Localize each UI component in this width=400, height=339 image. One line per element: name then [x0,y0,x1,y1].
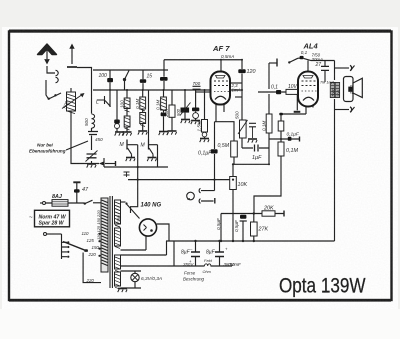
svg-text:0,1M: 0,1M [262,121,267,131]
svg-text:700: 700 [193,81,201,86]
svg-text:10V: 10V [288,84,298,90]
svg-text:7M 1mA: 7M 1mA [320,81,335,85]
svg-text:110: 110 [82,231,90,236]
svg-text:Spar 28 W: Spar 28 W [39,220,65,226]
svg-text:Beschrung: Beschrung [183,277,205,282]
svg-text:Ohm: Ohm [203,270,211,274]
svg-text:0,1M: 0,1M [135,99,140,109]
svg-text:220: 220 [86,278,95,283]
svg-text:27: 27 [315,62,322,68]
svg-text:8AJ: 8AJ [52,194,63,200]
svg-text:15: 15 [147,74,153,80]
svg-text:450: 450 [95,137,103,142]
svg-text:1,5M: 1,5M [197,121,202,131]
svg-text:AF 7: AF 7 [212,44,230,53]
svg-text:0,1: 0,1 [271,85,278,91]
svg-text:220: 220 [88,252,97,257]
svg-text:500: 500 [235,111,240,119]
svg-text:6,3V/0,3A: 6,3V/0,3A [141,276,162,282]
svg-text:0,5M: 0,5M [218,143,230,149]
svg-text:140 NG: 140 NG [141,203,162,209]
svg-text:100: 100 [336,90,341,97]
svg-text:L: L [96,100,99,106]
svg-text:0,1µF: 0,1µF [198,151,212,157]
svg-text:20K: 20K [263,206,274,212]
svg-text:1µF: 1µF [252,155,262,161]
svg-text:27K: 27K [258,227,269,233]
svg-text:AL4: AL4 [303,42,319,51]
svg-text:0,5µF: 0,5µF [216,217,221,230]
svg-text:0,5mA: 0,5mA [221,54,234,59]
svg-text:7000: 7000 [331,87,336,97]
svg-text:Ebenausführung: Ebenausführung [29,149,66,154]
svg-text:0,1µF: 0,1µF [287,132,300,138]
svg-text:Ferse: Ferse [184,271,196,276]
svg-text:110 125 150 220: 110 125 150 220 [96,209,101,240]
svg-text:0,1M: 0,1M [156,100,161,110]
svg-text:100: 100 [119,100,124,108]
svg-text:500: 500 [176,108,181,116]
svg-text:Opta 139W: Opta 139W [279,275,366,298]
svg-text:10K: 10K [238,182,248,188]
svg-text:8µF: 8µF [206,250,216,256]
svg-text:0,1M: 0,1M [286,148,298,154]
svg-text:350: 350 [116,215,121,222]
svg-text:47: 47 [82,187,89,193]
svg-text:100: 100 [99,73,108,79]
svg-text:1mA: 1mA [232,88,241,93]
svg-text:0,5µF: 0,5µF [234,219,239,232]
svg-text:50mF: 50mF [230,262,242,267]
svg-text:500: 500 [84,118,89,126]
svg-text:2000: 2000 [349,84,354,95]
svg-text:150: 150 [92,245,100,250]
svg-text:~: ~ [29,215,33,221]
svg-text:Feld: Feld [204,258,213,263]
svg-text:125: 125 [87,238,95,243]
svg-text:Nur bei: Nur bei [37,143,54,148]
svg-text:20K: 20K [164,108,169,118]
svg-text:0,1: 0,1 [301,50,308,55]
svg-text:120: 120 [247,69,256,75]
